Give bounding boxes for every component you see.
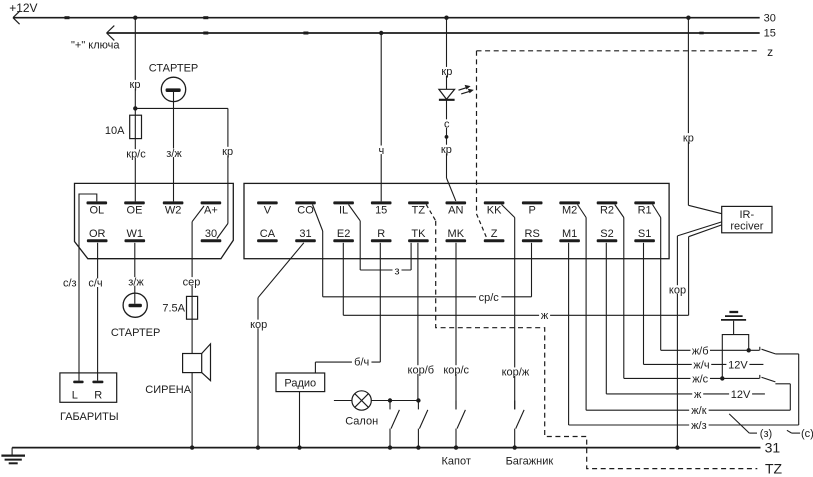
lamp Salon (334, 391, 371, 410)
svg-text:с: с (444, 119, 450, 131)
wire diagonal into pin AN (447, 178, 456, 201)
leader line label (s) (787, 428, 813, 440)
siren speaker (183, 344, 211, 381)
svg-text:СТАРТЕР: СТАРТЕР (149, 63, 199, 75)
pin S1 bottom row (634, 228, 655, 242)
svg-text:з/ж: з/ж (128, 276, 144, 288)
pin AN (446, 201, 467, 216)
wire zh/ch from pin S1 (643, 243, 645, 365)
wire from IR receiver to zh line (689, 225, 722, 315)
wire diagonal from pin R1 (653, 205, 661, 218)
svg-text:кр: кр (222, 146, 233, 158)
svg-text:ж/з: ж/з (691, 420, 706, 432)
wire ser vertical to fuse (182, 222, 201, 297)
svg-text:TZ: TZ (412, 205, 426, 217)
svg-text:з/ж: з/ж (166, 148, 182, 160)
wire zh horizontal (343, 310, 688, 322)
wire row zh/k (586, 405, 790, 417)
svg-text:Багажник: Багажник (506, 456, 554, 468)
wire diagonal from pin CO (313, 205, 323, 232)
wire zh from pin S2 (605, 243, 607, 394)
wire from pin E2 down (342, 243, 344, 315)
wire zh/b from pin R1 (660, 218, 662, 351)
pin 30 (201, 228, 222, 242)
pin R bottom row (371, 228, 392, 242)
wire diagonal into pin 30 of left block (217, 224, 228, 239)
tick mark on net 30 at x67 (65, 16, 70, 19)
svg-text:сер: сер (183, 276, 201, 288)
connector block X1 outline (75, 183, 234, 258)
svg-text:с/з: с/з (63, 278, 77, 290)
label Bagazhnik (506, 456, 554, 468)
svg-text:15: 15 (375, 205, 387, 217)
wire diagonal from pin 31 (258, 243, 304, 298)
svg-text:кор: кор (669, 284, 686, 296)
svg-text:W2: W2 (165, 205, 182, 217)
pin MK bottom row (446, 228, 467, 242)
wire diagonal from pin KK (502, 205, 515, 218)
label kr/s (123, 148, 148, 160)
svg-text:A+: A+ (204, 205, 218, 217)
wire TZ dashed diagonal from pin TZ (426, 205, 436, 221)
svg-text:15: 15 (764, 27, 776, 39)
leader line label (z) (729, 414, 772, 440)
junction node on zh/s row (720, 376, 724, 380)
svg-text:OE: OE (127, 205, 143, 217)
IR receiver unit (722, 206, 772, 232)
svg-text:IR-: IR- (739, 209, 754, 221)
svg-text:W1: W1 (127, 228, 144, 240)
svg-text:P: P (529, 205, 536, 217)
label 30 (764, 12, 776, 24)
wire from pin R down (379, 243, 381, 362)
pin KK (484, 201, 505, 216)
label STARTER lower (111, 327, 161, 339)
svg-text:ср/с: ср/с (479, 292, 500, 304)
svg-text:ж/б: ж/б (692, 345, 709, 357)
svg-text:кр: кр (441, 144, 452, 156)
wire row zh/ch with lamp 12V (644, 359, 764, 371)
wire kr to IR receiver (682, 18, 722, 214)
svg-text:СТАРТЕР: СТАРТЕР (111, 327, 161, 339)
wire kor from IR receiver to ground (668, 222, 722, 450)
pin 31 bottom row (295, 228, 316, 242)
svg-text:z: z (767, 45, 773, 59)
pin CA bottom row (257, 228, 278, 242)
wire kr from net 30 to LED (440, 18, 454, 90)
svg-text:Капот: Капот (441, 456, 470, 468)
label 31 (765, 440, 781, 456)
svg-text:TK: TK (411, 228, 426, 240)
pin OR (87, 228, 108, 242)
svg-text:(з): (з) (760, 428, 772, 440)
lights unit GABARITY box (60, 373, 117, 402)
wire net z vertical drop (476, 51, 478, 214)
svg-text:M2: M2 (562, 205, 577, 217)
wire z/zh from pin W1 to starter lower (126, 243, 145, 304)
switch door passenger (760, 375, 791, 410)
wire TZ dashed path to label (436, 221, 758, 469)
label 7.5A (162, 303, 185, 315)
pin CO (295, 201, 316, 216)
svg-text:AN: AN (448, 205, 463, 217)
pin A+ (201, 201, 222, 216)
svg-text:Радио: Радио (284, 378, 316, 390)
wire kr vertical x228 to pin 30 (221, 108, 235, 223)
pin OE (124, 201, 145, 216)
svg-text:R1: R1 (638, 205, 652, 217)
wire bracket to rows (722, 335, 748, 379)
pin IL (333, 201, 354, 216)
pin W2 (163, 201, 184, 216)
svg-text:кр/с: кр/с (126, 148, 146, 160)
svg-text:с/ч: с/ч (88, 278, 102, 290)
svg-text:M1: M1 (562, 228, 577, 240)
wire horizontal to x228 (135, 107, 228, 109)
radio unit box (276, 373, 325, 392)
wire diagonal from pin M2 (578, 205, 587, 218)
svg-text:+12V: +12V (9, 1, 37, 15)
fuse 10A (130, 108, 142, 201)
wire zh/k from pin M2 (585, 218, 587, 411)
pin V (257, 201, 278, 216)
pin P (522, 201, 543, 216)
pin M1 bottom row (559, 228, 580, 242)
wire z/zh from starter to pin W2 (164, 102, 183, 202)
svg-text:Салон: Салон (345, 415, 378, 427)
svg-text:R: R (377, 228, 385, 240)
svg-text:кр: кр (130, 79, 141, 91)
junction node small on LED wire (445, 135, 449, 139)
svg-text:12V: 12V (728, 359, 748, 371)
svg-text:31: 31 (299, 228, 311, 240)
wire kor/zh from pin KK (500, 218, 531, 410)
wire net 30 rail (13, 17, 760, 19)
wire diagonal from pin A+ (192, 206, 204, 222)
ground symbol (1, 448, 25, 464)
svg-text:30: 30 (764, 12, 776, 24)
pin L of lights (72, 381, 84, 402)
svg-text:ж/к: ж/к (691, 405, 706, 417)
label 10A (105, 125, 125, 137)
junction node at fuse top (133, 106, 137, 110)
wire ground rail net 31 (12, 447, 760, 449)
svg-text:OR: OR (89, 228, 106, 240)
svg-text:кор/ж: кор/ж (502, 367, 530, 379)
svg-text:S2: S2 (600, 228, 613, 240)
svg-text:кр: кр (683, 132, 694, 144)
pin 15 (371, 201, 392, 216)
svg-text:CO: CO (297, 205, 314, 217)
wire kor/s from pin MK (441, 243, 472, 410)
pin S2 bottom row (597, 228, 618, 242)
wire zh/s from pin R2 (623, 218, 625, 379)
svg-text:ж/ч: ж/ч (693, 359, 709, 371)
tick mark on net 30 at x206 (203, 16, 208, 19)
svg-text:10A: 10A (105, 125, 125, 137)
svg-text:ж: ж (541, 310, 549, 322)
pin R2 (597, 201, 618, 216)
svg-text:(с): (с) (801, 428, 813, 440)
starter contact lower (123, 293, 147, 317)
pin R1 (634, 201, 655, 216)
wire fuse to siren (191, 319, 193, 353)
label TZ (765, 460, 783, 476)
label z (767, 45, 773, 59)
label 15 (764, 27, 776, 39)
pin M2 (559, 201, 580, 216)
wire row zh/b (661, 345, 760, 357)
svg-text:RS: RS (525, 228, 540, 240)
label STARTER upper (149, 63, 199, 75)
wire kor from pin 31 to ground (249, 298, 268, 450)
svg-text:31: 31 (765, 440, 781, 456)
wire radio to ground (297, 392, 301, 450)
wire b/ch to radio (315, 356, 380, 373)
label +12V (9, 1, 37, 15)
label SIRENA (145, 384, 191, 396)
wire ch from net 15 to pin 15 (377, 31, 386, 202)
svg-text:б/ч: б/ч (354, 356, 369, 368)
svg-text:кор: кор (250, 319, 267, 331)
label Kapot (441, 456, 470, 468)
pin TK bottom row (408, 228, 429, 242)
svg-text:з: з (394, 265, 399, 277)
label GABARITY (60, 411, 119, 423)
pin E2 bottom row (333, 228, 354, 242)
LED emission arrows (459, 85, 474, 94)
svg-text:кор/с: кор/с (443, 364, 469, 376)
svg-text:R: R (94, 390, 102, 402)
tick mark on net 15 at x206 (203, 32, 208, 35)
junction node on net 30 at x135 (133, 16, 137, 20)
svg-text:L: L (72, 390, 78, 402)
starter contact upper (161, 77, 185, 101)
wire kor/b from pin TK (405, 243, 436, 401)
svg-text:Z: Z (491, 228, 498, 240)
svg-text:7.5A: 7.5A (162, 303, 185, 315)
pin TZ (408, 201, 429, 216)
svg-text:S1: S1 (638, 228, 651, 240)
wire net z dashed rail (477, 50, 758, 52)
switch kor/b (416, 398, 428, 450)
LED indicator (439, 89, 455, 100)
wire row zh/z (569, 420, 799, 432)
svg-text:"+" ключа: "+" ключа (71, 40, 120, 52)
tick mark on net 15 at x306 (303, 32, 308, 35)
arrowhead net 30 (13, 11, 20, 24)
junction node on net 30 at x688 (686, 16, 690, 20)
svg-text:кор/б: кор/б (408, 364, 435, 376)
wire row zh with lamp 12V (606, 389, 765, 401)
arrowhead net 15 (107, 26, 115, 41)
svg-text:IL: IL (339, 205, 348, 217)
label plus klyucha (71, 40, 120, 52)
wire kr vertical x135 (128, 18, 142, 109)
svg-text:ж: ж (694, 389, 702, 401)
wire diagonal from pin R2 (615, 205, 624, 218)
svg-text:V: V (264, 205, 272, 217)
wire row zh/s (624, 373, 760, 385)
wire lamp to switches (371, 400, 418, 402)
svg-text:СИРЕНА: СИРЕНА (145, 384, 191, 396)
pin R of lights (92, 381, 103, 402)
connector block X2 outline (244, 183, 669, 258)
svg-text:CA: CA (260, 228, 276, 240)
label Salon (345, 415, 378, 427)
svg-text:ГАБАРИТЫ: ГАБАРИТЫ (60, 411, 119, 423)
wire s below LED (442, 99, 451, 137)
wire net 15 rail (107, 32, 760, 34)
wire net z diagonal to pin Z (477, 214, 487, 237)
pin W1 (125, 228, 146, 242)
svg-text:MK: MK (448, 228, 465, 240)
wire z bracket IL to TK (360, 221, 411, 277)
fuse 7.5A (187, 296, 198, 319)
svg-text:ч: ч (379, 145, 385, 157)
wire s/z from pin OL to lights L (62, 194, 97, 381)
wire diagonal from pin IL (349, 205, 361, 221)
wire zh/z from pin M1 (568, 243, 570, 425)
wire siren to ground (190, 373, 194, 450)
pin Z bottom row (484, 228, 505, 242)
svg-text:E2: E2 (337, 228, 350, 240)
svg-text:12V: 12V (731, 389, 751, 401)
chassis symbol dome light (721, 312, 746, 335)
switch trunk Bagazhnik (513, 401, 525, 450)
wire sr/s from CO to RS (323, 231, 532, 304)
pin RS bottom row (522, 228, 543, 242)
svg-text:OL: OL (89, 205, 104, 217)
pin OL (87, 201, 108, 216)
switch salon door (388, 398, 400, 450)
svg-text:кр: кр (441, 66, 452, 78)
svg-text:30: 30 (205, 228, 217, 240)
wire kr to pin AN (440, 137, 454, 178)
junction node on net 30 at x446 (444, 16, 448, 20)
svg-text:R2: R2 (600, 205, 614, 217)
switch door driver (760, 347, 799, 425)
junction node on zh/b row (747, 348, 751, 352)
svg-text:ж/с: ж/с (692, 373, 708, 385)
tick mark on net 15 at x701 (699, 32, 703, 35)
svg-text:reciver: reciver (730, 220, 763, 232)
svg-text:TZ: TZ (765, 460, 783, 476)
switch hood Kapot (454, 401, 466, 450)
wire s/ch from pin OR to lights R (87, 243, 104, 381)
svg-text:KK: KK (487, 205, 502, 217)
